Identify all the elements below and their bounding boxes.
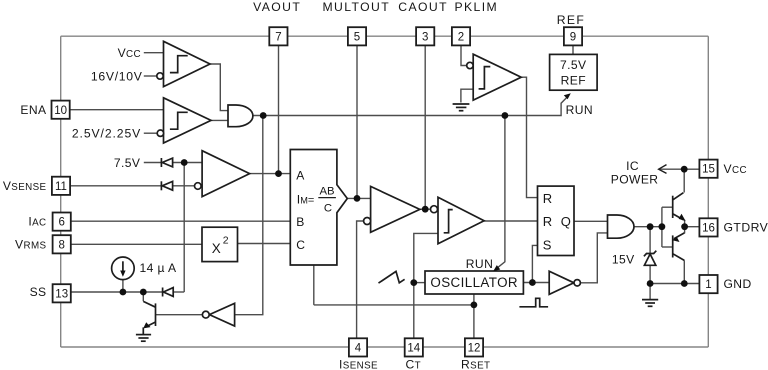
wire pin7 VAOUT vertical <box>278 46 280 174</box>
wire pin9 REF stub <box>572 46 574 55</box>
svg-text:2: 2 <box>223 235 229 247</box>
svg-text:8: 8 <box>58 239 64 251</box>
comparator U1 UVLO <box>157 41 210 86</box>
node CT oscillator <box>410 279 417 286</box>
svg-text:IM=: IM= <box>297 192 315 206</box>
wire chip right border <box>707 36 709 347</box>
wire error amp output to multiplier A <box>250 173 291 175</box>
wire chip bottom border <box>61 346 709 348</box>
arrow IC POWER <box>659 165 667 174</box>
wire multiplier output to current amp <box>347 197 370 199</box>
wire 2.5V/2.25V to U2 bubble <box>144 132 157 134</box>
node base <box>659 223 666 230</box>
svg-text:16V/10V: 16V/10V <box>91 69 143 83</box>
multiplier U4 <box>290 150 347 266</box>
pulse glyph <box>519 298 548 307</box>
wire D2 to error amp bubble <box>173 185 195 187</box>
wire CT to oscillator <box>414 282 425 284</box>
svg-text:Q: Q <box>561 214 571 229</box>
pin 1 <box>699 275 717 293</box>
svg-text:C: C <box>296 238 305 252</box>
wire G3 output to AND G4 <box>581 233 608 283</box>
wire G1 output down to inverter G2 <box>235 116 263 315</box>
svg-text:POWER: POWER <box>611 172 659 186</box>
node VAOUT tap <box>275 170 282 177</box>
wire PNP collector vertical <box>683 260 685 283</box>
AND gate G1 <box>228 105 253 127</box>
svg-text:VCC: VCC <box>724 162 747 176</box>
svg-text:3: 3 <box>422 31 428 43</box>
node RSET rail <box>471 302 478 309</box>
node GTDRV <box>681 223 688 230</box>
transistor Q3 <box>143 301 155 328</box>
svg-text:4: 4 <box>355 343 362 355</box>
sawtooth glyph <box>379 271 405 283</box>
svg-text:S: S <box>543 237 552 252</box>
wire zener ground stub <box>649 284 651 300</box>
svg-text:VCC: VCC <box>118 46 141 60</box>
wire IAC pin6 to multiplier B <box>70 220 290 222</box>
wire soft-start clamp vertical <box>183 163 185 293</box>
error amp U3 <box>195 151 250 197</box>
svg-text:RUN: RUN <box>566 103 593 117</box>
wire zener bottom <box>649 265 651 283</box>
wire pin15 VCC <box>684 168 699 170</box>
wire PKLIM comparator output to FF R <box>521 77 537 197</box>
svg-text:14 µ A: 14 µ A <box>140 261 177 275</box>
PKLIM comparator U7 <box>467 54 522 100</box>
wire 16V/10V to U1 bubble <box>144 75 157 77</box>
node zener gnd <box>647 280 654 287</box>
wire current amp output to PWM comparator <box>420 208 431 210</box>
wire pin5 MULTOUT vertical <box>356 46 358 199</box>
label IM=AB/C <box>297 186 336 215</box>
wire PWM comparator output to FF R <box>484 220 537 222</box>
svg-text:CAOUT: CAOUT <box>398 0 448 14</box>
wire emitter node <box>684 220 686 234</box>
svg-text:VRMS: VRMS <box>15 238 47 252</box>
ground Q3 emitter <box>136 327 151 341</box>
PWM comparator U6 <box>431 197 485 244</box>
svg-text:1: 1 <box>705 279 711 291</box>
pin 6 <box>53 213 71 231</box>
svg-text:REF: REF <box>561 74 586 88</box>
node SS collector <box>140 289 147 296</box>
svg-text:5: 5 <box>354 31 360 43</box>
svg-text:7: 7 <box>275 31 281 43</box>
node MULTOUT tap <box>354 195 361 202</box>
wire G4 output to driver bases <box>634 226 662 228</box>
wire oscillator output to inverter G3 <box>523 282 549 284</box>
pin 10 <box>52 101 70 119</box>
wire multiplier bottom stub <box>313 265 315 305</box>
wire oscillator to FF S <box>532 245 537 282</box>
wire PKLIM comparator plus input to ground <box>461 89 473 102</box>
inverter G2 <box>202 303 234 326</box>
diode D2 <box>161 181 172 190</box>
svg-text:B: B <box>296 215 304 229</box>
pin 3 <box>416 27 434 45</box>
wire VCC node vertical <box>683 169 685 192</box>
svg-text:10: 10 <box>54 105 67 117</box>
wire G1 output RUN net <box>253 96 568 115</box>
svg-text:X: X <box>212 241 221 256</box>
arrow RUN to REF <box>564 93 571 99</box>
svg-text:7.5V: 7.5V <box>560 58 587 72</box>
node VCC <box>681 166 688 173</box>
svg-text:VSENSE: VSENSE <box>3 179 47 193</box>
svg-text:IC: IC <box>626 159 639 173</box>
wire pin12 RSET vertical <box>473 294 475 338</box>
wire VSENSE pin11 to diode D2 <box>70 185 161 187</box>
AND gate G4 <box>608 215 635 238</box>
svg-text:R: R <box>543 191 552 206</box>
wire pin4 ISENSE to current amp bubble <box>357 221 364 338</box>
node oscillator out <box>529 279 536 286</box>
svg-text:ENA: ENA <box>20 103 47 117</box>
comparator U2 ENA <box>157 98 211 143</box>
pin 16 <box>699 218 717 236</box>
pin 15 <box>699 160 717 178</box>
svg-text:16: 16 <box>702 223 715 235</box>
wire bottom rail to RSET <box>314 304 474 306</box>
pin 9 <box>564 27 582 45</box>
svg-text:11: 11 <box>55 181 67 193</box>
wire pin16 GTDRV <box>685 226 700 228</box>
zener D4 15V <box>644 251 656 266</box>
node zener top <box>647 223 654 230</box>
flip-flop U8 <box>538 186 575 255</box>
svg-text:R: R <box>543 214 552 229</box>
wire SS pin13 to diode D3 <box>71 291 163 293</box>
node RUN branch <box>502 112 509 119</box>
wire 7.5V to diode D1 <box>144 162 162 164</box>
svg-text:GTDRV: GTDRV <box>724 221 768 235</box>
pin 13 <box>53 284 71 302</box>
wire U1 output to AND G1 <box>210 64 228 111</box>
pin 7 <box>269 27 287 45</box>
svg-text:OSCILLATOR: OSCILLATOR <box>430 275 518 290</box>
svg-text:14: 14 <box>407 343 420 355</box>
wire zener top <box>649 227 651 253</box>
svg-text:SS: SS <box>30 285 47 299</box>
wire D3 to clamp vertical <box>173 291 184 293</box>
wire Q3 collector <box>142 292 144 301</box>
svg-text:7.5V: 7.5V <box>114 156 141 170</box>
diode D3 <box>163 288 174 297</box>
pin 5 <box>348 27 366 45</box>
node GND <box>681 280 688 287</box>
svg-text:2.5V/2.25V: 2.5V/2.25V <box>72 127 141 141</box>
svg-text:2: 2 <box>458 31 464 43</box>
wire base stub bottom <box>662 246 673 248</box>
wire IC POWER arrow line <box>660 168 685 170</box>
diode D1 <box>161 158 172 167</box>
transistor Q2 PNP <box>672 233 684 261</box>
svg-text:15: 15 <box>702 164 715 176</box>
node CAOUT tap <box>422 206 429 213</box>
wire chip left border <box>60 36 62 347</box>
7.5V REF block <box>550 54 598 90</box>
svg-text:RUN: RUN <box>466 257 493 271</box>
pin 14 <box>405 338 423 356</box>
svg-text:AB: AB <box>319 186 334 198</box>
wire current source stub <box>122 280 124 292</box>
wire ENA pin10 to comparator <box>70 109 164 111</box>
node SS current source <box>120 289 127 296</box>
svg-text:C: C <box>324 203 332 215</box>
svg-text:GND: GND <box>724 277 752 291</box>
svg-text:PKLIM: PKLIM <box>455 0 499 14</box>
svg-text:IAC: IAC <box>28 214 46 228</box>
current source I1 14uA <box>112 257 135 280</box>
wire GND rail <box>650 283 699 285</box>
svg-text:13: 13 <box>55 288 68 300</box>
svg-text:A: A <box>296 169 305 183</box>
arrow RUN to oscillator <box>493 265 500 271</box>
wire U2 output to AND G1 <box>211 119 228 121</box>
X2 block <box>202 227 238 261</box>
wire chip top border <box>61 35 709 37</box>
inverter G3 <box>549 271 580 294</box>
wire FF Q output to AND G4 <box>574 220 608 222</box>
wire X2 to multiplier C <box>238 243 291 245</box>
svg-text:VAOUT: VAOUT <box>253 0 301 14</box>
ground zener <box>642 300 658 307</box>
wire pin2 PKLIM to comparator bubble <box>461 46 467 66</box>
svg-text:9: 9 <box>570 31 576 43</box>
oscillator block <box>425 271 523 294</box>
wire RUN to oscillator <box>497 116 505 269</box>
wire pin3 CAOUT vertical <box>424 46 426 210</box>
wire D1 to error amp <box>173 162 203 164</box>
transistor Q1 NPN <box>673 193 686 221</box>
current amp U5 <box>364 186 420 232</box>
svg-text:15V: 15V <box>612 253 635 267</box>
svg-text:MULTOUT: MULTOUT <box>323 0 391 14</box>
svg-text:6: 6 <box>58 217 64 229</box>
pin 11 <box>52 177 70 195</box>
wire VCC to comparator U1 <box>144 52 164 54</box>
pin 4 <box>349 338 367 356</box>
wire Q3 base to inverter G2 <box>156 314 203 316</box>
node 7.5V clamp <box>181 159 188 166</box>
wire base vertical <box>661 207 663 247</box>
wire base stub top <box>662 206 673 208</box>
ground U7 input <box>453 104 470 111</box>
pin 2 <box>452 27 470 45</box>
wire VRMS pin8 to X2 <box>70 243 202 245</box>
pin 8 <box>53 235 71 253</box>
svg-text:REF: REF <box>557 13 586 27</box>
svg-text:12: 12 <box>468 343 481 355</box>
wire pin14 CT vertical to PWM comparator <box>414 233 438 338</box>
node G1 out <box>260 112 267 119</box>
pin 12 <box>465 338 483 356</box>
